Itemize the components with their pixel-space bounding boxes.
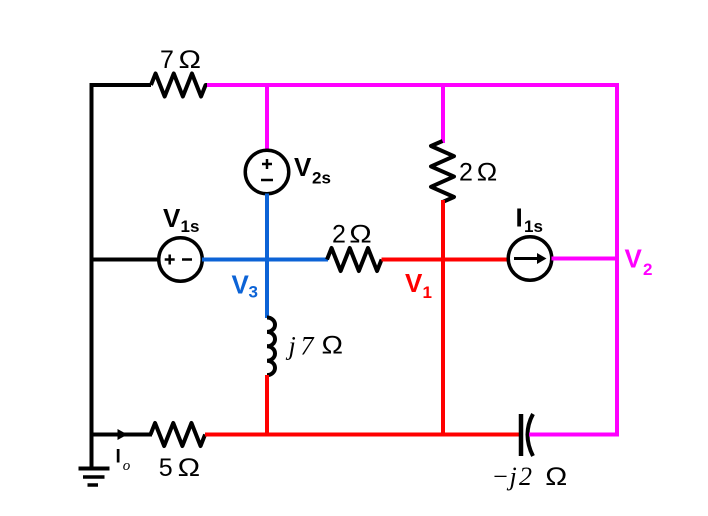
wire: red middle segment node V1 <box>382 258 510 262</box>
label V1 <box>405 268 432 302</box>
svg-text:3: 3 <box>249 283 258 302</box>
label -j2 Ohm <box>492 462 568 491</box>
svg-text:2: 2 <box>459 159 473 187</box>
wire: bottom magenta segment <box>529 433 619 437</box>
label 2 Ohm middle <box>332 221 372 249</box>
inductor j7ohm <box>267 318 275 376</box>
source I1s (current source circle) <box>508 237 552 281</box>
label V1s <box>163 203 199 236</box>
svg-text:Ω: Ω <box>349 221 372 249</box>
wire: bottom-left black segment <box>92 433 153 437</box>
label V2 <box>625 244 653 280</box>
arrow of I1s <box>514 253 547 264</box>
wire: top-left black segment <box>90 83 152 87</box>
wire: red vertical node V1 <box>441 200 445 437</box>
minus sign of V2s <box>261 179 273 182</box>
plus sign of V2s <box>262 159 272 169</box>
svg-text:Ω: Ω <box>477 159 498 187</box>
label 7 Ohm <box>160 46 201 74</box>
svg-text:7: 7 <box>160 46 174 74</box>
ground symbol <box>79 469 110 486</box>
source V1s (voltage source circle) <box>159 238 203 282</box>
svg-text:Ω: Ω <box>178 454 201 482</box>
label 2 Ohm vertical <box>459 159 497 187</box>
plus sign of V1s <box>165 255 175 265</box>
wire: middle black segment from rail to V1s <box>92 258 160 262</box>
resistor 7ohm <box>151 74 209 97</box>
arrow Io current direction <box>118 429 128 440</box>
label I1s <box>516 203 543 237</box>
source V2s (voltage source circle) <box>245 150 289 194</box>
resistor 2ohm vertical <box>431 141 454 202</box>
label j7 Ohm <box>286 332 344 361</box>
minus sign of V1s <box>182 258 192 261</box>
svg-text:−: − <box>492 462 510 491</box>
svg-text:V: V <box>163 203 181 233</box>
svg-text:1s: 1s <box>524 217 543 236</box>
svg-text:V: V <box>294 152 312 182</box>
svg-text:7: 7 <box>301 332 315 361</box>
svg-text:1s: 1s <box>181 217 200 236</box>
capacitor -j2ohm right curved plate <box>528 414 534 456</box>
wire: red below inductor <box>265 375 269 437</box>
wire: magenta from I1s to right rail <box>552 257 618 261</box>
wire: blue middle segment <box>202 258 328 262</box>
capacitor -j2ohm left plate <box>519 414 524 456</box>
wire: left ground rail <box>90 83 94 470</box>
svg-text:V: V <box>232 270 250 300</box>
svg-text:Ω: Ω <box>179 46 202 74</box>
resistor 5ohm <box>151 423 206 446</box>
svg-text:V: V <box>405 268 423 298</box>
label 5 Ohm <box>159 454 201 482</box>
wire: blue node V3 vertical <box>265 194 269 319</box>
svg-text:2: 2 <box>519 462 532 491</box>
svg-text:Ω: Ω <box>322 332 344 360</box>
svg-text:2: 2 <box>643 260 652 279</box>
svg-text:j: j <box>286 332 296 361</box>
wire: right rail magenta node V2 <box>615 83 619 437</box>
wire: top magenta segment <box>207 83 619 87</box>
wire: bottom red segment <box>205 433 521 437</box>
svg-text:Ω: Ω <box>545 463 567 491</box>
svg-text:V: V <box>625 244 643 274</box>
wire: magenta drop to 2ohm vertical <box>441 85 445 143</box>
svg-text:5: 5 <box>159 454 173 482</box>
resistor 2ohm middle <box>327 248 382 271</box>
label V2s <box>294 152 331 188</box>
svg-text:1: 1 <box>423 283 432 302</box>
label Io <box>116 447 131 474</box>
label V3 <box>232 270 258 302</box>
svg-text:o: o <box>123 458 131 474</box>
svg-text:2s: 2s <box>312 169 331 188</box>
svg-text:I: I <box>116 447 121 468</box>
svg-text:2: 2 <box>332 221 346 249</box>
svg-text:I: I <box>516 203 523 233</box>
wire: magenta drop to V2s <box>265 85 269 151</box>
